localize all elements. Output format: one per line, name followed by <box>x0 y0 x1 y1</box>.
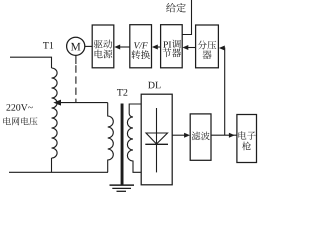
block: PI调节器 (PI regulator) <box>161 25 183 68</box>
diode inside DL <box>156 108 158 172</box>
label: 电网电压 (mains voltage) <box>3 117 37 125</box>
wire+arrow: filter to electron gun, junction with feedback tap <box>211 134 237 136</box>
wire: 220V top rail <box>10 57 52 68</box>
block: 驱动电源 (drive power supply) <box>92 25 114 68</box>
block: V/F转换 (V/F converter) <box>130 25 152 68</box>
wire+arrow: DL to filter <box>172 134 185 136</box>
label DL <box>148 82 160 89</box>
block: 电子枪 (electron gun) <box>237 115 257 163</box>
label T1 <box>43 42 53 49</box>
wire: T1 bottom lead <box>51 158 53 172</box>
wiper arrow into T1 winding <box>59 102 108 104</box>
wire+arrow: V/F converter to drive supply <box>119 46 130 48</box>
motor M <box>67 37 85 55</box>
wire+arrow: feedback tap up into divider <box>222 48 225 135</box>
mechanical link: dashed shaft from motor to wiper <box>75 55 77 64</box>
block: 分压器 (voltage divider) <box>196 25 219 68</box>
ground <box>110 184 135 186</box>
transformer T2: secondary winding <box>127 104 141 172</box>
wire: setpoint line into PI regulator <box>182 0 191 35</box>
label: 220V~ mains <box>6 104 32 111</box>
wire+arrow: PI regulator to V/F converter <box>156 46 161 48</box>
block: 滤波 (filter) <box>190 114 211 160</box>
wire+arrow: divider to PI regulator <box>186 47 196 49</box>
label T2 <box>117 89 127 96</box>
label: 给定 (setpoint) <box>166 3 186 12</box>
transformer T1: variac winding <box>52 68 58 158</box>
transformer T2: primary winding <box>108 103 114 173</box>
transformer T2: core <box>121 104 124 186</box>
wire: M to drive supply <box>85 45 92 47</box>
block DL: rectifier box <box>141 94 172 185</box>
wire: bottom rail <box>9 171 108 173</box>
